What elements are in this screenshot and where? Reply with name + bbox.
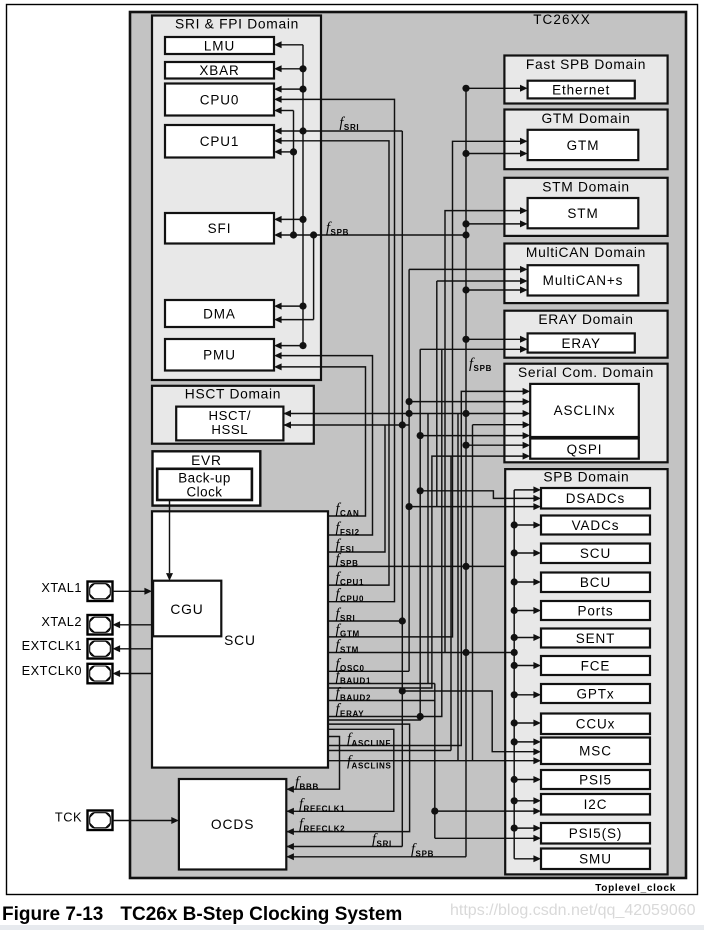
svg-text:MSC: MSC [579,744,612,759]
HSCT Domain box [152,386,314,444]
wire fSRI vertical bus in SRI domain [302,45,304,346]
wire fFSI2 to PMU row2 [281,356,373,535]
wire FCE from SPB vertical [511,662,518,669]
svg-text:CGU: CGU [170,602,203,617]
wire SPB internal distribution vertical [513,490,515,859]
wire CGU to EXTCLK0 [120,673,152,675]
wire VADCs from SPB vertical [511,521,518,528]
wire fASCLINS net up from MSC row [472,425,474,761]
wire PSI5S from SPB vertical [511,825,518,832]
wire fSPB spine V1 [465,88,467,857]
wire CPU0 row3 [281,110,294,112]
FastSPB domain box [504,56,667,104]
watermark [450,902,696,920]
svg-text:Fast SPB Domain: Fast SPB Domain [526,57,646,72]
pad EXTCLK1 [88,639,113,659]
block ASCLINx [530,384,639,437]
wire STM row2 from fSPB spine [462,220,469,227]
svg-text:GTM Domain: GTM Domain [541,111,630,126]
wire Back-up Clock to CGU [169,500,171,573]
svg-text:SMU: SMU [579,852,612,867]
svg-text:FCE: FCE [581,658,611,673]
SRI & FPI Domain box [152,16,321,381]
svg-text:XBAR: XBAR [199,63,239,78]
wire XTAL1 to CGU [113,590,146,592]
wire QSPI row1 from fSPB spine [462,442,469,449]
SerialCom domain box [504,364,667,463]
svg-text:Ports: Ports [577,603,613,618]
wire TCK to OCDS [113,820,173,822]
wire fSPB vertical in SRI domain [293,111,295,236]
svg-text:ASCLINx: ASCLINx [554,403,616,418]
svg-text:ERAY: ERAY [562,336,601,351]
wire CPU1 row3 from fSPB vertical [290,148,297,155]
bottom bar [0,925,704,930]
block QSPI [530,439,639,459]
wire fBAUD2 vertical [417,713,424,720]
block VADCs [541,516,650,535]
wire fBBB from SCU to OCDS [286,737,339,790]
wire CPU0 row1 from fSRI bus [299,86,306,93]
wire I2C row2 [431,808,438,815]
wire BCU from SPB vertical [511,578,518,585]
block Back-up Clock [157,469,252,500]
wire fCAN net to PMU row3 [281,367,366,516]
svg-text:VADCs: VADCs [572,518,620,533]
wire Ports from SPB vertical [511,607,518,614]
svg-text:DSADCs: DSADCs [566,491,625,506]
block ERAY [528,333,635,352]
outer chip box TC26XX [130,12,686,878]
svg-text:CPU0: CPU0 [200,92,240,107]
svg-text:STM: STM [567,206,598,221]
wire GTM row1 from fGTM net [328,141,520,637]
wire row at 749.7 from SCU [328,750,451,752]
figure caption [2,904,402,926]
ERAY domain box [504,311,667,358]
block I2C [541,794,650,815]
svg-text:CCUx: CCUx [576,717,616,732]
svg-text:HSCT Domain: HSCT Domain [185,387,281,402]
pad EXTCLK0 [88,664,113,684]
svg-text:SCU: SCU [224,633,256,648]
svg-text:PSI5(S): PSI5(S) [569,826,623,841]
svg-text:GPTx: GPTx [576,686,614,701]
svg-text:ERAY Domain: ERAY Domain [538,312,633,327]
block CPU0 [165,84,274,116]
svg-text:Ethernet: Ethernet [552,83,610,98]
block SCU [541,544,650,564]
wire MultiCAN row1 from fOSC0 vertical [409,268,520,270]
svg-text:Clock: Clock [187,485,223,500]
block PSI5(S) [541,823,650,844]
block Ports [541,601,650,620]
wire fERAY net vertical [328,349,442,716]
block STM [528,198,639,228]
svg-text:SRI & FPI Domain: SRI & FPI Domain [175,17,299,32]
block SENT [541,629,650,648]
block SFI [165,213,274,244]
block DSADCs [541,488,650,509]
wire fREFCLK2 from SCU to OCDS [286,724,409,832]
svg-text:PMU: PMU [203,348,236,363]
block DMA [165,300,274,327]
block OCDS [179,779,286,870]
wire GTM row2 from fSPB spine [462,150,469,157]
block Ethernet [528,81,635,99]
wire fSPB vertical2 SFI row to DMA [313,235,315,320]
GTM domain box [504,110,667,170]
block CGU [153,581,221,637]
wire DSADC row3 from fOSC0 vertical [406,503,413,510]
svg-text:XTAL2: XTAL2 [41,614,82,629]
wire DMA row1 from fSRI bus [299,303,306,310]
wire SENT from SPB vertical [511,634,518,641]
wire XBAR from fSRI bus [299,65,306,72]
svg-text:HSSL: HSSL [211,422,248,437]
wire SCU from SPB vertical [511,549,518,556]
block CPU1 [165,125,274,158]
svg-text:TCK: TCK [55,810,82,825]
svg-text:SFI: SFI [208,221,232,236]
wire SFI row1 from fSRI bus [299,216,306,223]
svg-text:SENT: SENT [576,631,616,646]
svg-text:MultiCAN+s: MultiCAN+s [543,273,624,288]
wire fREFCLK1 from SCU to OCDS [286,729,394,811]
block HSCT/HSSL [176,407,283,441]
wire MSC from SPB vertical [511,738,518,745]
wire MultiCAN row3 from fSPB spine [462,286,469,293]
wire fCPU1 net: SCU row to CPU1 row2 [281,141,389,585]
wire ASCLIN row5 from fBAUD2 net [420,435,523,437]
wire STM row1 from fSTM net [445,211,520,653]
SPB Domain box [505,469,667,874]
svg-text:EXTCLK0: EXTCLK0 [22,663,82,678]
wire vertical MultiCAN row2 to DSADC row3 [436,281,438,507]
svg-text:XTAL1: XTAL1 [41,580,82,595]
wire GPTx from SPB vertical [511,691,518,698]
block MSC [541,738,650,765]
wire fBAUD2 row from SCU [328,700,435,702]
wire fSRI net: SCU to CPU1 row1 and down to OCDS [328,620,402,622]
block XBAR [165,62,274,79]
wire PMU row1 from fSRI bus [299,342,306,349]
wire fSPB row to SFI CPU - label row [281,234,466,236]
svg-text:EVR: EVR [191,453,221,468]
svg-text:HSCT/: HSCT/ [209,408,252,423]
wire vertical ASCLIN row3 to MSC row3 [457,414,459,761]
pad XTAL2 [88,615,113,635]
svg-text:Toplevel_clock: Toplevel_clock [595,883,676,894]
svg-text:STM Domain: STM Domain [542,179,630,194]
block CCUx [541,714,650,735]
block FCE [541,656,650,675]
svg-text:DMA: DMA [203,306,236,321]
block GPTx [541,684,650,703]
wire fSPB source row from SCU [328,565,505,567]
wire CGU to EXTCLK1 [120,648,152,650]
wire DSADC row1 from SPB vertical [514,489,534,491]
svg-text:GTM: GTM [567,138,600,153]
block LMU [165,37,274,54]
pad XTAL1 [88,582,113,602]
block PSI5 [541,770,650,789]
wire vertical to I2C PSI5S [434,684,436,839]
wire vertical QSPI row2 to fASCLINF area row [450,456,452,750]
wire I2C from SPB vertical [511,797,518,804]
wire Ethernet from fSPB spine [462,85,469,92]
wire MSC row3 / fASCLINS row from SCU [328,760,534,762]
wire fCPU0 net: SCU row to CPU0 row2 [281,99,395,601]
block PMU [165,339,274,371]
wire PSI5 from SPB vertical [511,776,518,783]
block BCU [541,573,650,593]
wire MultiCAN row2 from fOSC net vertical [437,280,520,282]
MultiCAN domain box [504,244,667,304]
wire DMA row2 [281,319,314,321]
wire fSTM row from SCU to SPB feed [328,652,514,654]
wire ASCLIN row4 from fASCLINS vertical corner [473,424,524,426]
wire fSPB into OCDS [286,856,466,858]
svg-text:BCU: BCU [580,575,611,590]
svg-text:I2C: I2C [584,797,608,812]
wire HSCT row2 - fSRI to HSCT [283,424,409,426]
wire PSI5S row2 [435,837,534,839]
wire ASCLIN row2 from fOSC0 vertical [406,398,413,405]
block MultiCAN+s [528,265,639,295]
wire CCUx from SPB vertical [511,719,518,726]
wire fFSI net vertical [328,425,385,552]
svg-text:LMU: LMU [204,38,235,53]
svg-text:SPB Domain: SPB Domain [543,470,629,485]
svg-text:TC26XX: TC26XX [533,12,591,27]
pad TCK [88,811,113,831]
svg-text:OCDS: OCDS [211,817,254,832]
block SMU [541,849,650,870]
wire fBAUD1 second row to I2C PSI5S vertical [328,683,435,685]
wire ERAY row2 from fBAUD2 vertical top corner [420,348,520,350]
svg-text:MultiCAN Domain: MultiCAN Domain [526,245,646,260]
wire SMU from SPB vertical [514,858,534,860]
svg-text:QSPI: QSPI [567,442,603,457]
wire HSCT row1 - fSPB to HSCT and ASCLIN row3 [283,413,523,415]
wire ASCLIN row1 from fASCLINF net [328,391,523,745]
wire vertical ASCLIN row3 to fBAUD1 row [427,414,429,684]
svg-text:PSI5: PSI5 [579,772,612,787]
svg-text:Back-up: Back-up [178,471,231,486]
wire MSC row2 from fSRI branch [399,687,406,694]
svg-text:EXTCLK1: EXTCLK1 [22,638,82,653]
wire LMU from fSRI bus [281,44,303,46]
block GTM [528,130,639,160]
wire CGU to XTAL2 [120,624,152,626]
EVR box [153,451,261,505]
wire ERAY row1 from fSPB spine [462,336,469,343]
wire fSRI into OCDS [286,846,402,848]
svg-text:SCU: SCU [580,546,611,561]
block SCU [152,511,328,767]
svg-text:Serial Com. Domain: Serial Com. Domain [518,365,654,380]
STM domain box [504,178,667,236]
svg-text:CPU1: CPU1 [200,134,240,149]
wire QSPI row2 from fBAUD1 net [328,456,523,688]
wire DSADC row2 branch from fBAUD2 vertical [417,487,424,494]
wire fOSC0 net vertical [328,670,409,672]
